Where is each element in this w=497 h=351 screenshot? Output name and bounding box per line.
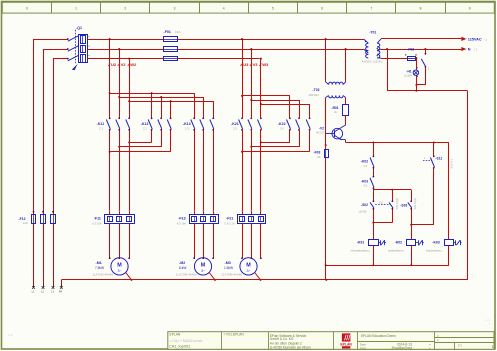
wire motor-branch1 phase 3 (128, 58, 130, 258)
relay coil K01 (350, 240, 386, 253)
svg-text:+: + (437, 338, 439, 342)
net label U3 V3 W3 (240, 62, 269, 67)
svg-text:-M1: -M1 (96, 261, 102, 265)
svg-text:ZhouBaoTong: ZhouBaoTong (391, 346, 412, 350)
contactor K22 label (278, 122, 286, 130)
wire branch2 lower link 2 (251, 130, 299, 147)
svg-text:(L1)EH: (L1)EH (404, 73, 412, 77)
svg-text:= +: = + (8, 333, 13, 337)
svg-text:-K01: -K01 (357, 240, 364, 244)
svg-text:6.3-16A: 6.3-16A (92, 222, 102, 226)
svg-text:-H1: -H1 (406, 69, 411, 73)
svg-text:=: = (437, 334, 439, 338)
svg-text:M: M (201, 262, 206, 268)
svg-text:5 8: 5 8 (364, 165, 368, 168)
svg-text:3~: 3~ (117, 269, 121, 273)
overload relay F21 (225, 210, 266, 225)
svg-text:+: + (429, 346, 431, 350)
wire control branch K01 upper (373, 143, 375, 190)
svg-text:M: M (246, 262, 251, 268)
svg-text:9: 9 (469, 7, 471, 11)
svg-text:5: 5 (272, 7, 274, 11)
aux contact K03 (361, 176, 374, 190)
svg-text:1LA7096-4AA60: 1LA7096-4AA60 (222, 272, 243, 276)
svg-text:0.9-1.2A: 0.9-1.2A (225, 222, 235, 226)
wire K13 output 2 (203, 130, 205, 258)
svg-text:U3: U3 (243, 62, 249, 67)
svg-text:7.5kW: 7.5kW (95, 266, 104, 270)
svg-text:S03 13(1): S03 13(1) (395, 198, 399, 210)
svg-text:1LA7163-4AA60: 1LA7163-4AA60 (93, 272, 114, 276)
svg-text:4A: 4A (317, 155, 321, 159)
svg-text:U2: U2 (111, 62, 117, 67)
svg-text:W2: W2 (130, 62, 137, 67)
wire branch1 upper link 2 (119, 96, 203, 118)
overload relay F11 (92, 210, 134, 225)
svg-text:-F01: -F01 (164, 30, 171, 34)
wire S02 pole1 stem (373, 190, 375, 223)
aux contact K02 (361, 155, 374, 168)
wire lamp-loop right (467, 91, 469, 280)
svg-text:1: 1 (492, 345, 494, 349)
motor M2 (176, 257, 216, 281)
contactor K11 label (97, 122, 105, 130)
fuse F02 (381, 48, 417, 61)
svg-text:W3: W3 (262, 62, 269, 67)
terminal L3 (51, 284, 54, 294)
svg-text:3: 3 (174, 7, 176, 11)
svg-text:D-40789 Monheim am Rhein: D-40789 Monheim am Rhein (270, 346, 311, 350)
svg-text:S11 0-1: S11 0-1 (449, 159, 453, 169)
net label U2 V2 W2 (108, 62, 137, 67)
wire branch2 upper link 1 (242, 96, 290, 119)
wire 115VAC (381, 37, 487, 42)
svg-text:manjindianzu: manjindianzu (426, 249, 442, 253)
svg-text:6.3-16A: 6.3-16A (177, 222, 187, 226)
svg-text:-K02: -K02 (395, 240, 402, 244)
svg-text:11kW: 11kW (179, 266, 187, 270)
svg-text:-K03: -K03 (432, 240, 439, 244)
wire L2 feeder (43, 49, 364, 284)
wire K03 coil leads (448, 245, 450, 265)
wire branch2 upper link 3 (261, 104, 310, 118)
svg-text:-K02: -K02 (361, 160, 368, 164)
svg-text:EPLAN: EPLAN (340, 342, 352, 346)
wire control rail (346, 140, 449, 144)
svg-text:-S11: -S11 (435, 157, 442, 161)
transformer T01 (362, 30, 383, 63)
svg-text:-V2: -V2 (319, 127, 324, 131)
svg-text:1: 1 (75, 7, 77, 11)
contactor K13 label (183, 122, 191, 130)
contactor K21 label (231, 122, 239, 130)
wire K02 coil leads (410, 225, 412, 267)
svg-text:Appr: Appr (360, 346, 366, 350)
svg-text:2.5: 2.5 (233, 126, 237, 130)
terminal PE (59, 284, 63, 294)
relay coil K02 (388, 240, 424, 253)
svg-text:-R01: -R01 (332, 106, 339, 110)
svg-text:kuaijindianzu: kuaijindianzu (388, 249, 404, 253)
svg-text:8: 8 (420, 7, 422, 11)
svg-text:/ 1: / 1 (484, 37, 488, 41)
svg-text:-T02: -T02 (313, 88, 320, 92)
wire T02 primary feeds (325, 38, 347, 82)
wire K01 coil leads (372, 223, 374, 267)
svg-text:-Q1: -Q1 (76, 26, 82, 30)
wire L1 feeder (34, 39, 364, 284)
wire branch2 lower link 1 (261, 130, 290, 143)
wire lamp-loop bottom (387, 90, 467, 92)
wire S03 to S11 link (410, 224, 434, 226)
wire branch1 lower link 3 (110, 130, 171, 152)
svg-text:PE: PE (59, 290, 63, 294)
svg-text:shangliaodianzu: shangliaodianzu (350, 249, 370, 253)
svg-text:-F02: -F02 (407, 48, 414, 52)
wire K13 output 1 (194, 130, 196, 258)
wire coil return rail (326, 265, 449, 267)
svg-text:S04 13(1): S04 13(1) (413, 198, 417, 210)
wire T02 secondary left (325, 98, 327, 280)
motor M3 (222, 257, 262, 281)
svg-text:EPLAN Education Demo: EPLAN Education Demo (361, 334, 396, 338)
svg-text:V2: V2 (121, 62, 127, 67)
terminal L2 (41, 284, 44, 294)
wire motor-branch2 phase 1 (241, 38, 243, 258)
main switch Q1 (67, 26, 90, 70)
svg-text:-F11: -F11 (94, 217, 101, 221)
wire motor-branch2 phase 2 (250, 48, 252, 258)
svg-text:M: M (117, 262, 122, 268)
svg-text:BC327: BC327 (317, 131, 325, 135)
contactor K21 contacts (239, 117, 262, 130)
fuse F12 (3x vertical) (19, 211, 56, 225)
wire motor-branch2 phase 3 (260, 58, 262, 258)
svg-text:-M2: -M2 (179, 261, 185, 265)
svg-text:GmbH & Co. KG: GmbH & Co. KG (270, 337, 294, 341)
switch S03 (400, 198, 417, 210)
svg-text:-M3: -M3 (225, 261, 231, 265)
switch S02 pole1 (359, 200, 375, 213)
motor M1 (93, 257, 133, 281)
relay coil K03 (426, 240, 462, 253)
svg-text:= F01:EPLAN: = F01:EPLAN (224, 332, 245, 336)
svg-text:x 1: x 1 (486, 318, 490, 322)
wire parallel box bottom (372, 222, 392, 224)
svg-text:4: 4 (223, 7, 225, 11)
fuse F01 (164, 30, 181, 60)
transformer T02 (309, 82, 346, 98)
terminal L1 (32, 284, 35, 294)
svg-text:N: N (468, 48, 471, 52)
wire R01 to V1 (345, 115, 347, 125)
wire branch1 lower link 2 (119, 130, 161, 147)
svg-text:-F13: -F13 (178, 217, 185, 221)
wire motor-branch1 phase 2 (118, 48, 120, 258)
svg-text:-F03: -F03 (314, 150, 321, 154)
svg-text:2: 2 (124, 7, 126, 11)
svg-text:/ 1: / 1 (474, 47, 478, 51)
wire PE rail (61, 279, 467, 284)
wire parallel box top (373, 189, 411, 191)
wire branch1 lower link 1 (129, 130, 151, 143)
wire N (381, 47, 478, 52)
svg-text:S1L: S1L (379, 201, 384, 204)
wire branch2 lower link 3 (242, 130, 310, 152)
svg-text:13(ON): 13(ON) (359, 211, 367, 214)
svg-text:CA1_top001: CA1_top001 (169, 345, 190, 349)
svg-text:400/24V: 400/24V (309, 93, 320, 97)
overload relay F13 (177, 210, 219, 225)
transistor V1 (317, 125, 346, 140)
contactor K12 label (141, 122, 149, 130)
switch S11 (423, 155, 453, 168)
contactor K22 contacts (287, 117, 311, 130)
svg-text:0: 0 (26, 7, 28, 11)
svg-text:7: 7 (370, 7, 372, 11)
contactor K11 contacts (106, 117, 130, 130)
svg-text:2.1: 2.1 (99, 126, 103, 130)
svg-text:EPLAN: EPLAN (170, 332, 181, 336)
svg-text:-S03: -S03 (400, 203, 407, 207)
svg-text:-S02: -S02 (361, 203, 368, 207)
wire S02 pole2 stem (392, 190, 394, 223)
svg-text:= CA1 + MA2/2.a mnt: = CA1 + MA2/2.a mnt (170, 339, 203, 343)
svg-text:-F21: -F21 (226, 217, 233, 221)
wire K13 output 3 (213, 130, 215, 258)
contactor K13 contacts (191, 117, 214, 130)
svg-text:400VAC 115VAC: 400VAC 115VAC (362, 59, 383, 63)
svg-text:2.6: 2.6 (280, 126, 284, 130)
wire K03 coil feed (448, 143, 450, 240)
resistor R01 (332, 98, 349, 116)
svg-text:5 8: 5 8 (364, 185, 368, 188)
svg-text:2.2: 2.2 (143, 126, 147, 130)
link S02 dashes (375, 201, 390, 204)
contactor K12 contacts (148, 117, 171, 130)
svg-text:6: 6 (321, 7, 323, 11)
svg-text:16A: 16A (23, 221, 28, 225)
wire branch2 upper link 2 (251, 100, 299, 118)
wire branch1 upper link 3 (129, 100, 213, 118)
wire branch1 upper link 1 (110, 92, 195, 118)
wire lamp-loop left (387, 49, 389, 91)
wire L3 feeder (53, 59, 260, 284)
svg-text:2.3: 2.3 (185, 126, 189, 130)
svg-text:V3: V3 (253, 62, 259, 67)
svg-text:1LA7166-4AA60: 1LA7166-4AA60 (176, 272, 197, 276)
svg-text:1.5kW: 1.5kW (224, 266, 233, 270)
svg-text:-K03: -K03 (361, 179, 368, 183)
svg-text:1/1: 1/1 (458, 343, 463, 347)
wire S11 branch (433, 143, 435, 225)
svg-text:-T01: -T01 (369, 30, 376, 34)
svg-text:16A: 16A (175, 30, 180, 34)
wire S03 branch stem (411, 190, 413, 225)
fuse F03 (314, 149, 329, 159)
lamp H1 (404, 57, 419, 91)
svg-text:3~: 3~ (201, 269, 205, 273)
wire motor-branch1 phase 1 (109, 38, 111, 258)
switch S01 (415, 49, 429, 86)
svg-text:3~: 3~ (246, 269, 250, 273)
switch S02 pole2 (389, 198, 399, 210)
svg-text:115VAC: 115VAC (468, 38, 482, 42)
